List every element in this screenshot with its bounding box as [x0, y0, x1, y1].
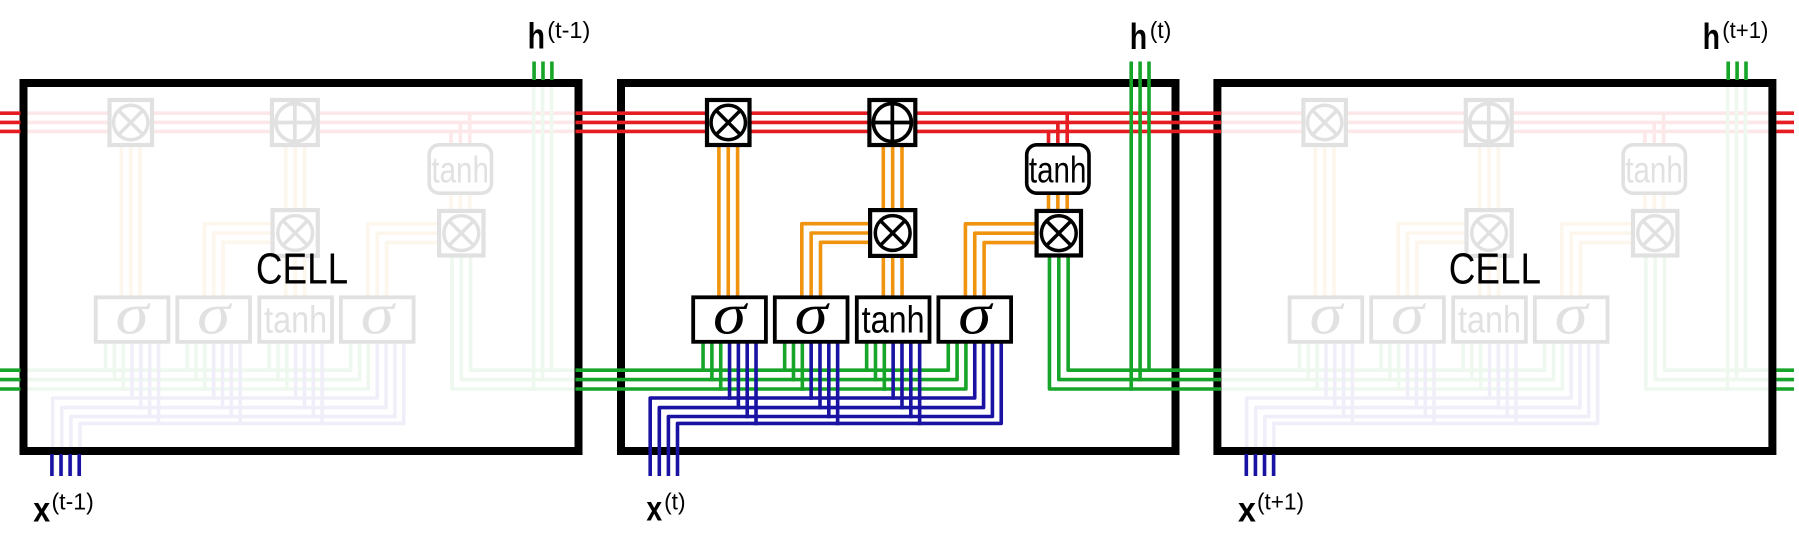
current cell border: [621, 83, 1176, 451]
svg-text:(t-1): (t-1): [547, 17, 590, 43]
next cell border: [1217, 83, 1772, 451]
wire: incoming h stub at far left (green): [0, 368, 21, 372]
svg-text:CELL: CELL: [1449, 245, 1541, 294]
svg-text:h: h: [1130, 16, 1147, 57]
wire: x(t+1) stubs below next cell: [1245, 454, 1249, 476]
wire: x(t-1) stubs below previous cell: [50, 454, 54, 476]
svg-text:(t+1): (t+1): [1722, 17, 1768, 43]
svg-text:x: x: [1238, 491, 1256, 530]
wire: h(t-1) stubs above previous cell: [532, 62, 536, 81]
svg-text:x: x: [33, 491, 50, 530]
svg-text:(t-1): (t-1): [52, 489, 94, 515]
wire: outgoing h stub at far right (green): [1777, 368, 1795, 372]
svg-text:h: h: [1703, 16, 1720, 57]
previous cell border: [24, 83, 579, 451]
faded internals of previous cell: [0, 62, 624, 477]
current cell internals: [576, 62, 1222, 477]
svg-text:(t): (t): [664, 489, 686, 515]
svg-text:x: x: [646, 490, 662, 529]
svg-text:(t+1): (t+1): [1257, 489, 1304, 515]
wire: h(t+1) stubs above next cell: [1726, 62, 1730, 81]
wire: incoming c stub at far left (red): [0, 111, 21, 115]
faded internals of next cell: [1172, 62, 1799, 477]
svg-text:h: h: [528, 16, 545, 57]
svg-text:CELL: CELL: [256, 245, 348, 294]
wire: outgoing c stub at far right (red): [1777, 111, 1795, 115]
svg-text:(t): (t): [1150, 17, 1172, 43]
